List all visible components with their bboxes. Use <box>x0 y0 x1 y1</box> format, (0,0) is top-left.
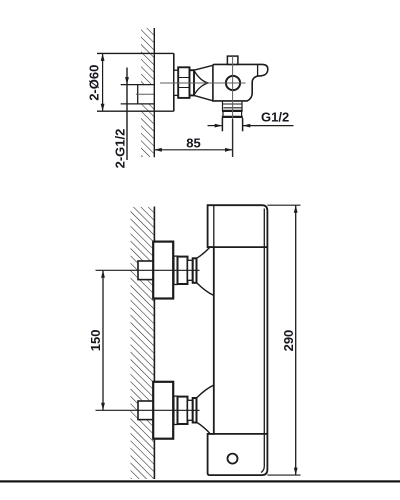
svg-text:290: 290 <box>281 330 296 352</box>
svg-text:150: 150 <box>88 329 103 351</box>
svg-text:2-Ø60: 2-Ø60 <box>87 65 102 101</box>
svg-text:85: 85 <box>186 135 200 150</box>
svg-text:2-G1/2: 2-G1/2 <box>113 129 128 169</box>
svg-text:G1/2: G1/2 <box>261 110 289 125</box>
